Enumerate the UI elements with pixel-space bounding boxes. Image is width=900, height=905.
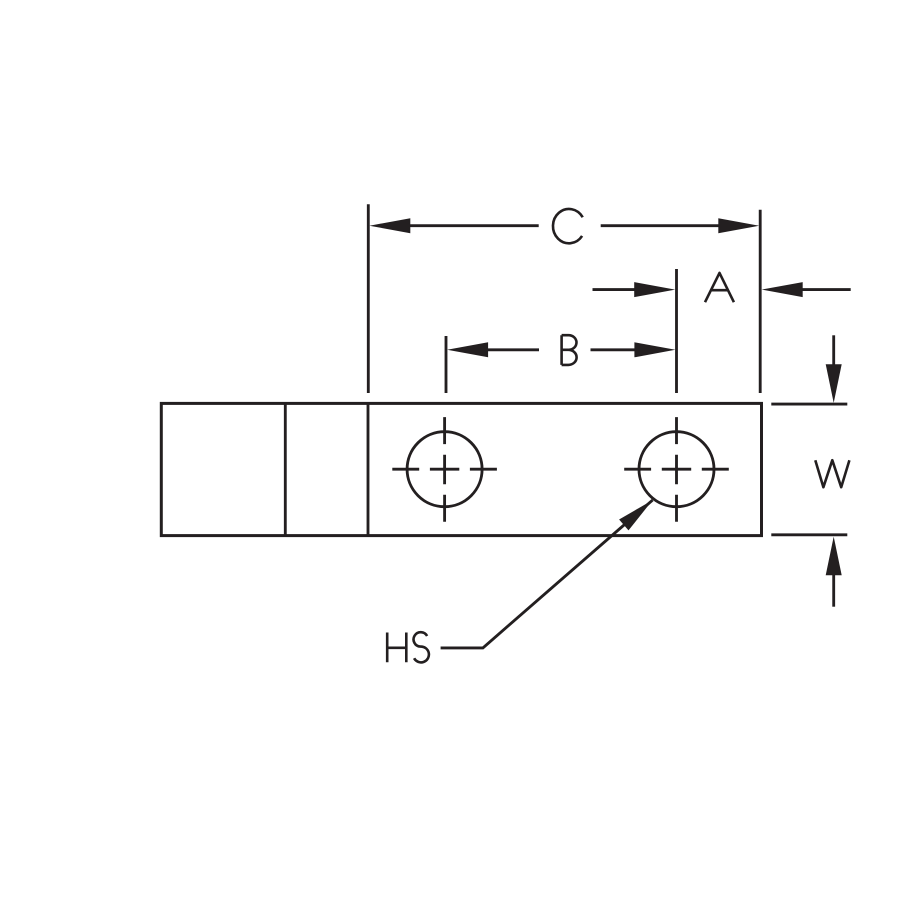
- dimension C line left segment: [409, 224, 539, 227]
- dimension C extension line right: [759, 210, 762, 393]
- hole HS right centerlines: [624, 417, 729, 522]
- label W: [815, 460, 849, 487]
- arrowhead A pointing right: [634, 282, 675, 297]
- label H of HS: [387, 633, 406, 663]
- label A: [705, 273, 734, 302]
- label S of HS: [414, 632, 429, 662]
- arrowhead W top pointing down: [826, 364, 842, 403]
- arrowhead B left: [447, 342, 488, 357]
- dimension A line right segment: [802, 288, 851, 291]
- dimension B line right segment: [591, 348, 637, 351]
- arrowhead B right: [634, 342, 675, 357]
- dimension W extension line top: [771, 403, 847, 406]
- dimension C extension line left: [367, 204, 370, 393]
- dimension W arrow stem top: [832, 335, 835, 367]
- leader line to hole HS: [441, 500, 653, 648]
- internal edge line 2: [367, 403, 370, 535]
- hole HS left centerlines: [392, 417, 497, 522]
- arrowhead C right: [718, 218, 759, 233]
- dimension B extension line left: [445, 336, 448, 393]
- hole HS left circle: [407, 432, 482, 507]
- dimension B line left segment: [488, 348, 539, 351]
- dimension W extension line bottom: [771, 533, 847, 536]
- label B: [562, 335, 577, 365]
- internal edge line 1: [284, 403, 287, 535]
- dimension B extension line right (hole 2 center): [675, 269, 678, 393]
- dimension A line left segment: [593, 288, 637, 291]
- dimension W arrow stem bottom: [832, 573, 835, 607]
- hole HS right circle: [639, 432, 714, 507]
- arrowhead C left: [369, 218, 410, 233]
- label C: [553, 209, 583, 243]
- arrowhead W bottom pointing up: [826, 537, 842, 576]
- arrowhead leader HS: [619, 500, 653, 530]
- arrowhead A pointing left: [762, 282, 803, 297]
- part outline rectangle: [161, 403, 761, 535]
- dimension C line right segment: [601, 224, 720, 227]
